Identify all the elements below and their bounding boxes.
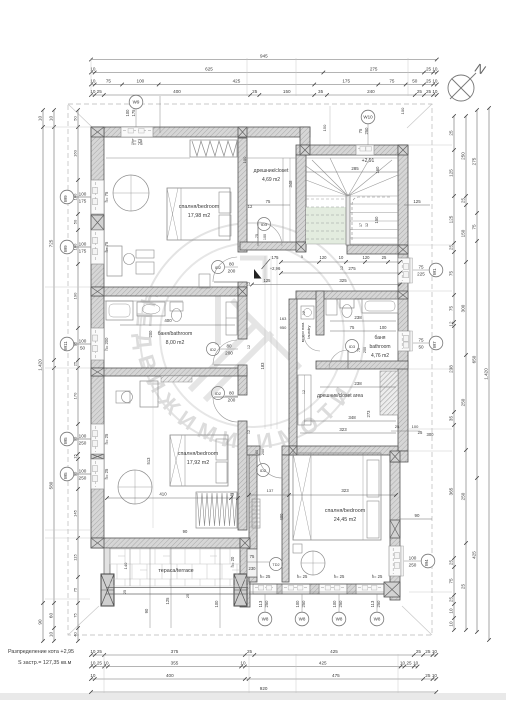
svg-text:25: 25 bbox=[97, 649, 103, 654]
svg-text:400: 400 bbox=[166, 673, 174, 678]
svg-text:h= 75: h= 75 bbox=[104, 241, 109, 252]
svg-text:75: 75 bbox=[350, 325, 355, 330]
svg-text:100: 100 bbox=[242, 156, 247, 163]
svg-text:250: 250 bbox=[79, 440, 87, 445]
svg-text:ID3: ID3 bbox=[349, 344, 356, 349]
svg-text:12: 12 bbox=[365, 223, 369, 227]
svg-text:50: 50 bbox=[73, 219, 78, 224]
svg-text:238: 238 bbox=[354, 315, 362, 320]
svg-text:W4: W4 bbox=[424, 559, 429, 566]
svg-text:10: 10 bbox=[49, 632, 54, 638]
svg-text:35: 35 bbox=[449, 416, 454, 422]
svg-text:+2,96: +2,96 bbox=[270, 266, 281, 271]
svg-text:150: 150 bbox=[283, 89, 291, 94]
svg-text:160: 160 bbox=[73, 149, 78, 156]
svg-text:ID2: ID2 bbox=[215, 391, 222, 396]
svg-text:25: 25 bbox=[418, 430, 423, 435]
svg-text:170: 170 bbox=[73, 392, 78, 399]
svg-text:1.420: 1.420 bbox=[484, 368, 489, 380]
svg-text:h= 75: h= 75 bbox=[104, 191, 109, 202]
svg-text:250: 250 bbox=[409, 562, 417, 567]
svg-text:W8: W8 bbox=[374, 617, 381, 622]
svg-text:10: 10 bbox=[432, 673, 438, 678]
svg-text:25: 25 bbox=[123, 590, 127, 594]
svg-text:W8: W8 bbox=[299, 617, 306, 622]
svg-text:25: 25 bbox=[449, 245, 454, 251]
svg-text:12: 12 bbox=[247, 345, 251, 349]
svg-text:25: 25 bbox=[247, 649, 253, 654]
svg-text:10: 10 bbox=[432, 67, 438, 72]
svg-text:200: 200 bbox=[225, 350, 233, 355]
svg-text:250: 250 bbox=[364, 127, 369, 135]
svg-text:200: 200 bbox=[228, 268, 236, 273]
svg-text:5: 5 bbox=[301, 255, 303, 259]
svg-text:спалня/bedroom: спалня/bedroom bbox=[178, 451, 219, 457]
svg-text:17,98 m2: 17,98 m2 bbox=[188, 213, 210, 219]
svg-text:75: 75 bbox=[266, 199, 271, 204]
svg-text:325: 325 bbox=[339, 278, 347, 283]
svg-text:W9: W9 bbox=[63, 245, 68, 252]
svg-text:25: 25 bbox=[186, 594, 190, 598]
svg-text:25: 25 bbox=[407, 661, 413, 666]
svg-text:80: 80 bbox=[255, 450, 259, 454]
svg-text:25: 25 bbox=[426, 79, 432, 84]
svg-text:113: 113 bbox=[370, 600, 375, 607]
svg-text:275: 275 bbox=[472, 157, 477, 165]
svg-text:h= 20: h= 20 bbox=[230, 556, 235, 567]
svg-text:10: 10 bbox=[240, 661, 246, 666]
svg-text:4,69 m2: 4,69 m2 bbox=[262, 177, 280, 183]
svg-text:25: 25 bbox=[461, 584, 466, 590]
svg-text:25: 25 bbox=[449, 597, 454, 603]
svg-text:спалня/bedroom: спалня/bedroom bbox=[179, 204, 220, 210]
svg-text:300: 300 bbox=[461, 304, 466, 312]
svg-text:25: 25 bbox=[416, 649, 422, 654]
svg-text:250: 250 bbox=[376, 600, 381, 608]
svg-text:125: 125 bbox=[165, 597, 170, 605]
svg-text:10: 10 bbox=[339, 255, 344, 260]
svg-text:12: 12 bbox=[248, 204, 253, 209]
svg-text:400: 400 bbox=[279, 513, 284, 521]
svg-text:h= 200: h= 200 bbox=[104, 337, 109, 351]
svg-text:190: 190 bbox=[73, 292, 78, 299]
svg-text:275: 275 bbox=[348, 266, 356, 271]
svg-text:25: 25 bbox=[230, 492, 235, 497]
svg-text:348: 348 bbox=[288, 180, 293, 188]
svg-text:950: 950 bbox=[280, 325, 287, 330]
svg-text:160: 160 bbox=[375, 166, 380, 174]
svg-text:100: 100 bbox=[214, 600, 219, 608]
svg-text:200: 200 bbox=[148, 330, 153, 338]
svg-text:25: 25 bbox=[395, 424, 400, 429]
svg-text:100: 100 bbox=[79, 191, 87, 196]
svg-text:35: 35 bbox=[318, 89, 324, 94]
svg-text:250: 250 bbox=[338, 600, 343, 608]
svg-text:ID2: ID2 bbox=[215, 265, 222, 270]
svg-text:баня/bathroom: баня/bathroom bbox=[158, 331, 193, 337]
svg-text:75: 75 bbox=[449, 578, 454, 584]
svg-text:10: 10 bbox=[103, 661, 109, 666]
svg-text:дрешник/closet: дрешник/closet bbox=[254, 168, 289, 174]
svg-text:10: 10 bbox=[400, 661, 406, 666]
svg-text:10: 10 bbox=[449, 621, 454, 627]
svg-text:100: 100 bbox=[79, 433, 87, 438]
svg-text:275: 275 bbox=[370, 67, 378, 72]
svg-text:250: 250 bbox=[461, 398, 466, 406]
svg-text:50: 50 bbox=[73, 116, 78, 121]
svg-text:25: 25 bbox=[97, 661, 103, 666]
svg-text:W1: W1 bbox=[432, 268, 437, 275]
svg-text:125: 125 bbox=[413, 199, 421, 204]
svg-text:h= 25: h= 25 bbox=[372, 574, 383, 579]
svg-text:100: 100 bbox=[332, 600, 337, 608]
svg-text:100: 100 bbox=[400, 107, 405, 114]
svg-text:100: 100 bbox=[263, 234, 267, 240]
svg-text:75: 75 bbox=[418, 337, 424, 342]
svg-text:400: 400 bbox=[173, 89, 181, 94]
svg-text:137: 137 bbox=[267, 488, 274, 493]
svg-text:400: 400 bbox=[164, 318, 172, 323]
svg-text:100: 100 bbox=[412, 424, 419, 429]
svg-text:75: 75 bbox=[357, 348, 361, 352]
svg-text:100: 100 bbox=[295, 600, 300, 608]
svg-text:285: 285 bbox=[351, 166, 359, 171]
svg-text:4,76 m2: 4,76 m2 bbox=[371, 353, 389, 359]
svg-text:8,00 m2: 8,00 m2 bbox=[166, 340, 185, 346]
svg-text:W7: W7 bbox=[432, 341, 437, 348]
svg-text:115: 115 bbox=[73, 554, 78, 561]
svg-text:Разпределение кота +2,95: Разпределение кота +2,95 bbox=[8, 649, 74, 655]
svg-text:80: 80 bbox=[229, 261, 235, 266]
svg-text:410: 410 bbox=[159, 492, 167, 497]
svg-text:спалня/bedroom: спалня/bedroom bbox=[325, 508, 366, 514]
svg-text:150: 150 bbox=[374, 216, 379, 224]
svg-text:h= 25: h= 25 bbox=[260, 574, 271, 579]
svg-text:25: 25 bbox=[425, 649, 431, 654]
svg-text:10: 10 bbox=[38, 116, 43, 122]
svg-text:100: 100 bbox=[380, 325, 388, 330]
svg-text:bathroom: bathroom bbox=[369, 344, 390, 350]
svg-text:W8: W8 bbox=[336, 617, 343, 622]
svg-text:200: 200 bbox=[228, 397, 236, 402]
svg-text:25: 25 bbox=[426, 67, 432, 72]
svg-text:h= 75: h= 75 bbox=[132, 138, 143, 143]
svg-text:75: 75 bbox=[472, 224, 477, 230]
svg-text:75: 75 bbox=[449, 306, 454, 312]
svg-text:ID2: ID2 bbox=[210, 347, 217, 352]
svg-text:h= 25: h= 25 bbox=[104, 433, 109, 444]
svg-text:50: 50 bbox=[418, 344, 424, 349]
svg-text:175: 175 bbox=[79, 198, 87, 203]
svg-text:25: 25 bbox=[461, 198, 466, 204]
svg-text:580: 580 bbox=[49, 481, 54, 489]
svg-text:25: 25 bbox=[417, 89, 423, 94]
svg-text:12: 12 bbox=[247, 282, 251, 286]
svg-text:175: 175 bbox=[131, 109, 136, 117]
svg-text:365: 365 bbox=[449, 487, 454, 495]
svg-text:12: 12 bbox=[302, 390, 306, 394]
svg-text:150: 150 bbox=[461, 229, 466, 237]
svg-text:ID3: ID3 bbox=[261, 222, 268, 227]
svg-text:90: 90 bbox=[144, 608, 149, 613]
svg-text:10: 10 bbox=[90, 673, 96, 678]
svg-text:25: 25 bbox=[426, 89, 432, 94]
svg-text:100: 100 bbox=[125, 109, 130, 117]
svg-text:323: 323 bbox=[339, 427, 347, 432]
svg-text:140: 140 bbox=[123, 562, 128, 569]
svg-text:75: 75 bbox=[73, 613, 78, 618]
svg-text:230: 230 bbox=[249, 566, 257, 571]
svg-text:250: 250 bbox=[79, 475, 87, 480]
svg-text:75: 75 bbox=[358, 128, 363, 133]
svg-text:300: 300 bbox=[427, 432, 435, 437]
svg-text:дрешник/closet area: дрешник/closet area bbox=[317, 393, 363, 399]
svg-text:75: 75 bbox=[106, 79, 112, 84]
svg-text:920: 920 bbox=[260, 686, 268, 691]
svg-text:240: 240 bbox=[367, 89, 375, 94]
svg-text:75: 75 bbox=[418, 264, 424, 269]
svg-text:725: 725 bbox=[49, 239, 54, 247]
svg-text:W9: W9 bbox=[133, 100, 140, 105]
svg-text:120: 120 bbox=[320, 255, 328, 260]
svg-text:15: 15 bbox=[73, 454, 78, 459]
svg-text:100: 100 bbox=[79, 468, 87, 473]
svg-text:12: 12 bbox=[247, 430, 251, 434]
svg-text:25: 25 bbox=[425, 673, 431, 678]
svg-text:273: 273 bbox=[366, 410, 371, 418]
svg-text:113: 113 bbox=[258, 600, 263, 607]
svg-text:100: 100 bbox=[137, 79, 145, 84]
svg-text:513: 513 bbox=[146, 457, 151, 465]
svg-text:125: 125 bbox=[449, 215, 454, 223]
svg-text:650: 650 bbox=[472, 355, 477, 363]
svg-text:+2,91: +2,91 bbox=[362, 158, 375, 164]
svg-text:50: 50 bbox=[80, 345, 86, 350]
svg-text:90: 90 bbox=[183, 529, 188, 534]
svg-text:12: 12 bbox=[340, 266, 344, 270]
svg-text:475: 475 bbox=[332, 673, 340, 678]
svg-text:10: 10 bbox=[90, 649, 96, 654]
svg-text:120: 120 bbox=[363, 255, 371, 260]
svg-text:баня: баня bbox=[375, 335, 386, 341]
svg-text:425: 425 bbox=[472, 551, 477, 559]
svg-text:250: 250 bbox=[461, 152, 466, 160]
svg-text:150: 150 bbox=[322, 124, 327, 131]
svg-text:W5: W5 bbox=[63, 472, 68, 479]
svg-text:10: 10 bbox=[413, 661, 419, 666]
svg-text:ID2: ID2 bbox=[260, 468, 267, 473]
svg-text:238: 238 bbox=[354, 381, 362, 386]
svg-text:375: 375 bbox=[171, 649, 179, 654]
svg-text:TD2: TD2 bbox=[272, 563, 279, 567]
svg-text:50: 50 bbox=[412, 79, 418, 84]
svg-text:250: 250 bbox=[301, 600, 306, 608]
svg-text:75: 75 bbox=[73, 587, 78, 592]
svg-text:25: 25 bbox=[252, 89, 258, 94]
svg-text:225: 225 bbox=[417, 271, 425, 276]
svg-text:425: 425 bbox=[330, 649, 338, 654]
svg-text:945: 945 bbox=[260, 54, 268, 59]
svg-text:25: 25 bbox=[449, 560, 454, 566]
svg-text:W10: W10 bbox=[363, 115, 373, 120]
svg-text:355: 355 bbox=[171, 661, 179, 666]
svg-text:323: 323 bbox=[341, 488, 349, 493]
svg-text:125: 125 bbox=[264, 278, 272, 283]
svg-text:W11: W11 bbox=[63, 341, 68, 350]
svg-text:80: 80 bbox=[229, 390, 235, 395]
svg-text:425: 425 bbox=[319, 661, 327, 666]
svg-text:W5: W5 bbox=[63, 437, 68, 444]
svg-text:10: 10 bbox=[432, 89, 438, 94]
svg-text:90: 90 bbox=[415, 513, 420, 518]
svg-text:h= 25: h= 25 bbox=[104, 468, 109, 479]
svg-text:175: 175 bbox=[342, 79, 350, 84]
svg-text:1.420: 1.420 bbox=[38, 359, 43, 371]
svg-text:17: 17 bbox=[359, 223, 363, 227]
svg-text:25: 25 bbox=[449, 130, 454, 136]
svg-text:h= 25: h= 25 bbox=[334, 574, 345, 579]
svg-text:90: 90 bbox=[38, 619, 43, 625]
svg-text:S застр.= 127,35 кв.м: S застр.= 127,35 кв.м bbox=[18, 660, 72, 666]
svg-text:75: 75 bbox=[389, 79, 395, 84]
svg-text:175: 175 bbox=[79, 248, 87, 253]
svg-text:348: 348 bbox=[348, 415, 356, 420]
svg-text:145: 145 bbox=[73, 509, 78, 516]
svg-text:75: 75 bbox=[449, 271, 454, 277]
svg-text:40: 40 bbox=[73, 632, 78, 637]
svg-text:мокро пом.: мокро пом. bbox=[300, 322, 305, 343]
svg-text:200: 200 bbox=[363, 347, 367, 353]
svg-text:75: 75 bbox=[250, 554, 255, 559]
svg-text:10: 10 bbox=[90, 661, 96, 666]
svg-text:10: 10 bbox=[449, 608, 454, 614]
svg-text:25: 25 bbox=[73, 361, 78, 366]
svg-text:183: 183 bbox=[260, 362, 265, 370]
svg-text:25: 25 bbox=[97, 89, 103, 94]
svg-text:h= 25: h= 25 bbox=[297, 574, 308, 579]
svg-text:75: 75 bbox=[255, 234, 259, 238]
svg-text:laundry: laundry bbox=[306, 325, 311, 338]
svg-text:175: 175 bbox=[272, 255, 280, 260]
svg-text:25: 25 bbox=[382, 255, 387, 260]
svg-text:163: 163 bbox=[280, 316, 287, 321]
svg-text:10: 10 bbox=[432, 79, 438, 84]
svg-text:250: 250 bbox=[264, 600, 269, 608]
svg-text:200: 200 bbox=[261, 449, 265, 455]
svg-text:100: 100 bbox=[79, 338, 87, 343]
svg-text:80: 80 bbox=[226, 343, 232, 348]
svg-text:625: 625 bbox=[205, 67, 213, 72]
svg-text:W9: W9 bbox=[63, 195, 68, 202]
svg-text:10: 10 bbox=[432, 649, 438, 654]
svg-text:тераса/terrace: тераса/terrace bbox=[158, 568, 193, 574]
svg-text:425: 425 bbox=[233, 79, 241, 84]
svg-text:100: 100 bbox=[409, 555, 417, 560]
svg-text:10: 10 bbox=[49, 116, 54, 122]
svg-text:250: 250 bbox=[461, 492, 466, 500]
svg-text:125: 125 bbox=[449, 169, 454, 177]
svg-text:12: 12 bbox=[449, 321, 454, 327]
svg-text:100: 100 bbox=[79, 241, 87, 246]
svg-text:12: 12 bbox=[302, 311, 306, 315]
svg-text:W8: W8 bbox=[262, 617, 269, 622]
svg-text:17,92 m2: 17,92 m2 bbox=[187, 460, 209, 466]
svg-text:60: 60 bbox=[49, 613, 54, 619]
svg-text:24,45 m2: 24,45 m2 bbox=[334, 517, 356, 523]
